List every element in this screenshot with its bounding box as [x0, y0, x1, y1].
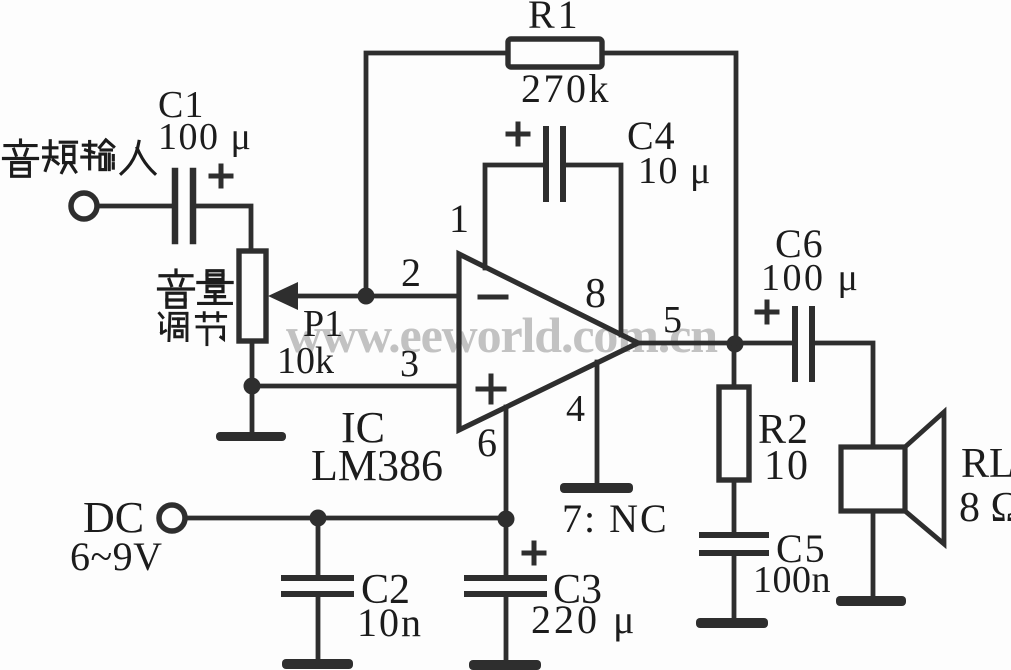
wire pin6	[504, 407, 509, 578]
wire C2 to ground	[316, 594, 321, 660]
wire	[98, 204, 171, 209]
label 音量 (volume)	[159, 270, 233, 307]
wire R2 to C5	[732, 480, 737, 535]
svg-text:R1: R1	[528, 0, 581, 37]
svg-text:100 μ: 100 μ	[158, 116, 252, 158]
svg-text:100 μ: 100 μ	[761, 257, 860, 299]
wire pin3	[252, 384, 459, 389]
svg-text:1: 1	[449, 196, 469, 241]
plus sign C1	[211, 166, 231, 186]
svg-text:100n: 100n	[753, 559, 831, 601]
ground C3	[469, 660, 541, 670]
node C2 junction	[310, 510, 327, 527]
label 调节 (adjust)	[159, 313, 225, 345]
wire wiper to pin2	[294, 294, 459, 299]
label 音频输入 (audio input)	[3, 140, 154, 176]
svg-text:3: 3	[400, 343, 419, 385]
wire pin4	[595, 362, 600, 483]
ground pot	[216, 432, 286, 441]
svg-text:10 μ: 10 μ	[638, 150, 712, 192]
input terminal	[71, 193, 97, 219]
potentiometer wiper arrow	[268, 282, 298, 310]
ground speaker	[836, 596, 906, 606]
ground C2	[282, 659, 353, 669]
resistor R1	[508, 39, 602, 67]
plus sign C4	[508, 124, 528, 144]
wire pot bottom	[250, 341, 255, 432]
capacitor C1	[175, 171, 193, 241]
wire pin5 output	[638, 341, 791, 346]
ground pin4	[560, 483, 633, 493]
wire pin1	[485, 165, 541, 268]
op-amp minus sign	[480, 295, 506, 300]
plus sign C3	[524, 543, 544, 563]
wire C6 to speaker	[816, 343, 873, 447]
wire C5 to ground	[732, 553, 737, 618]
capacitor C6	[795, 309, 812, 379]
speaker RL	[841, 412, 944, 544]
plus sign C6	[757, 302, 777, 322]
svg-text:8 Ω: 8 Ω	[959, 485, 1011, 531]
capacitor C4	[546, 129, 563, 199]
svg-text:www.eeworld.com.cn: www.eeworld.com.cn	[286, 307, 718, 363]
potentiometer P1 body	[239, 251, 266, 341]
svg-text:7: NC: 7: NC	[562, 496, 669, 541]
svg-text:10: 10	[764, 443, 810, 489]
svg-text:P1: P1	[303, 303, 343, 345]
wire pin8	[566, 165, 621, 335]
wire speaker to ground	[871, 511, 876, 596]
capacitor C3	[467, 578, 544, 594]
svg-text:6: 6	[477, 420, 497, 465]
svg-text:8: 8	[585, 271, 606, 317]
wire C2 top	[316, 518, 321, 578]
svg-text:5: 5	[663, 299, 682, 341]
svg-text:4: 4	[566, 388, 585, 430]
svg-text:220 μ: 220 μ	[531, 597, 637, 642]
svg-text:RL: RL	[961, 441, 1011, 487]
svg-text:LM386: LM386	[311, 441, 443, 490]
wire R1 to right vertical	[602, 53, 736, 343]
node output junction	[727, 336, 744, 353]
wire C3 to ground	[504, 594, 509, 661]
wire DC rail	[186, 516, 506, 521]
svg-text:2: 2	[401, 250, 421, 295]
op-amp U1 LM386 triangle	[459, 254, 638, 430]
svg-text:270k: 270k	[521, 66, 611, 111]
DC terminal	[159, 505, 185, 531]
node junction feedback/pin2	[358, 288, 375, 305]
node pin6/DC junction	[498, 511, 515, 528]
capacitor C5	[702, 535, 766, 553]
svg-text:10n: 10n	[357, 600, 423, 645]
node pot/pin3 junction	[244, 378, 261, 395]
wire node to R2	[732, 344, 737, 387]
svg-text:10k: 10k	[277, 340, 334, 382]
ground C5	[696, 618, 768, 628]
svg-text:6~9V: 6~9V	[70, 534, 163, 579]
capacitor C2	[284, 578, 351, 594]
resistor R2	[719, 387, 749, 480]
wire	[196, 206, 251, 251]
op-amp plus sign	[478, 376, 504, 402]
wire feedback left vertical	[366, 53, 508, 296]
